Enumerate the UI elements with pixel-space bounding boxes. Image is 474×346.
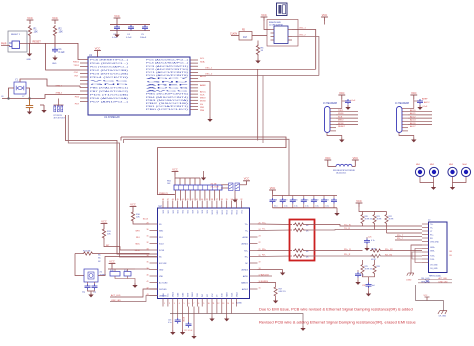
svg-text:SCK: SCK xyxy=(338,116,343,118)
J4 net labels xyxy=(410,98,430,129)
capacitor C5 100uF xyxy=(142,25,148,31)
capacitor C17 xyxy=(186,322,192,328)
svg-text:30: 30 xyxy=(147,229,149,231)
svg-text:PD0 (RXD/PCI...): PD0 (RXD/PCI...) xyxy=(90,63,129,65)
svg-text:23: 23 xyxy=(259,235,261,237)
svg-text:PC1 (ADC1/PCINT9): PC1 (ADC1/PCINT9) xyxy=(146,71,189,74)
svg-text:0.1u: 0.1u xyxy=(168,322,172,324)
wire U2 AGND pin to gnd xyxy=(258,269,283,271)
wire TX-_R out xyxy=(305,229,375,232)
svg-text:PD4 (XCK/T0): PD4 (XCK/T0) xyxy=(90,77,129,79)
svg-text:4.7n: 4.7n xyxy=(371,240,375,242)
U2 bottom pin stubs xyxy=(163,299,237,307)
ground under C1 xyxy=(52,56,57,61)
svg-text:1M: 1M xyxy=(243,35,247,39)
power flag VCC (X2) xyxy=(243,177,250,185)
svg-text:VD18: VD18 xyxy=(182,293,184,297)
ground cap bank xyxy=(114,33,119,38)
svg-text:EXCLRK: EXCLRK xyxy=(159,263,167,265)
node LINK_LED stub xyxy=(110,296,158,302)
resistor R14 1M xyxy=(75,253,82,255)
svg-text:0.1uF: 0.1uF xyxy=(126,37,132,39)
capacitor C11 xyxy=(229,183,234,191)
svg-text:MH3: MH3 xyxy=(449,164,453,166)
svg-text:45: 45 xyxy=(177,199,179,201)
capacitor row C18..C24 xyxy=(270,196,338,208)
wire VCC to U1 xyxy=(97,55,99,58)
svg-text:19: 19 xyxy=(259,261,261,263)
svg-text:ACT_LED: ACT_LED xyxy=(439,277,448,280)
svg-text:AVDD: AVDD xyxy=(243,275,249,278)
svg-text:13: 13 xyxy=(222,303,224,305)
svg-text:SD4: SD4 xyxy=(183,210,185,214)
svg-text:14: 14 xyxy=(227,303,229,305)
svg-text:GND: GND xyxy=(52,63,57,65)
svg-text:7: 7 xyxy=(193,303,194,305)
U1 left net labels xyxy=(55,61,79,105)
svg-text:PB1 (OC1A/PCINT1): PB1 (OC1A/PCINT1) xyxy=(146,105,189,108)
svg-text:MISO: MISO xyxy=(200,98,206,100)
U1 right pin stubs xyxy=(190,60,198,110)
wire osc clock out lower xyxy=(292,37,319,76)
svg-text:VD18: VD18 xyxy=(178,293,180,297)
svg-text:41: 41 xyxy=(196,199,198,201)
wire Y1 right leg xyxy=(26,88,30,99)
svg-text:BANDG: BANDG xyxy=(241,282,248,285)
svg-text:MH1: MH1 xyxy=(416,164,420,166)
wire RX-_R out xyxy=(305,255,375,257)
svg-text:TX+_R: TX+_R xyxy=(344,225,351,227)
svg-text:X2_IN: X2_IN xyxy=(211,183,217,185)
power flag VCC (R10) xyxy=(130,202,137,210)
power flag VCC (osc left) xyxy=(261,13,268,21)
wire RX- to box xyxy=(258,255,293,258)
svg-text:4K7 4K7 4K7: 4K7 4K7 4K7 xyxy=(54,118,65,120)
svg-text:ADC2: ADC2 xyxy=(410,115,416,118)
power flag VCC (R1 top) xyxy=(27,16,34,24)
wire RC to U2 xyxy=(135,268,150,270)
J2 pin names xyxy=(430,224,439,270)
svg-text:CHS_GND: CHS_GND xyxy=(430,241,439,243)
svg-text:34: 34 xyxy=(231,199,233,201)
svg-text:GND1: GND1 xyxy=(173,292,175,297)
svg-text:RX-_T: RX-_T xyxy=(397,238,404,240)
svg-text:R14 1M: R14 1M xyxy=(83,251,91,253)
svg-text:TX-: TX- xyxy=(262,229,266,231)
resistor R26 xyxy=(373,263,376,275)
ground RN1 xyxy=(203,171,205,176)
svg-text:PB6 (XTAL1/TOSC1): PB6 (XTAL1/TOSC1) xyxy=(90,87,129,90)
svg-text:TX-_R: TX-_R xyxy=(344,228,351,230)
svg-text:C20: C20 xyxy=(294,200,297,202)
svg-text:SD11: SD11 xyxy=(217,210,219,214)
svg-text:GND2: GND2 xyxy=(192,292,194,297)
svg-text:CH_GND: CH_GND xyxy=(430,268,438,270)
svg-text:35: 35 xyxy=(226,199,228,201)
svg-text:VCC: VCC xyxy=(90,81,132,83)
svg-text:GND: GND xyxy=(159,270,164,272)
mounting hole MH2 xyxy=(429,167,438,176)
svg-text:SD0: SD0 xyxy=(163,210,165,214)
capacitor C2 tantalum xyxy=(26,99,33,110)
svg-text:GRN-: GRN- xyxy=(430,250,435,252)
svg-text:GRN_LED: GRN_LED xyxy=(421,281,431,283)
svg-text:48: 48 xyxy=(162,199,164,201)
U2 bottom drops xyxy=(173,307,232,335)
resistor R21 49.9R xyxy=(373,213,376,225)
op-amp U2 body DM9000 xyxy=(158,208,250,299)
svg-text:100uF: 100uF xyxy=(140,37,147,39)
svg-text:1: 1 xyxy=(164,303,165,305)
svg-text:LINK_LED: LINK_LED xyxy=(439,281,449,283)
svg-text:C17 4.7uF: C17 4.7uF xyxy=(184,330,193,332)
RC cluster xyxy=(108,259,150,288)
svg-text:AREF: AREF xyxy=(200,84,206,87)
U2 right pin numbers xyxy=(259,222,261,289)
resistor R16 0R xyxy=(293,223,305,226)
svg-text:SD8: SD8 xyxy=(202,210,204,214)
svg-text:RX-: RX- xyxy=(430,238,433,240)
svg-text:AVCC: AVCC xyxy=(424,101,430,104)
power flag VCC (cap row) xyxy=(269,186,276,194)
svg-text:4: 4 xyxy=(179,303,180,305)
U2 right pin names xyxy=(241,224,249,291)
svg-text:C25: C25 xyxy=(368,237,371,239)
svg-text:42: 42 xyxy=(191,199,193,201)
svg-text:0.1uF: 0.1uF xyxy=(351,100,357,102)
resistor R10 xyxy=(131,211,134,223)
svg-text:SD7: SD7 xyxy=(197,210,199,214)
svg-text:INT: INT xyxy=(202,294,204,297)
U2 left pin stubs xyxy=(150,224,158,296)
svg-text:12: 12 xyxy=(217,303,219,305)
svg-text:Due to EMI issue, PCB wire rev: Due to EMI issue, PCB wire revised & Eth… xyxy=(259,306,413,311)
svg-text:33: 33 xyxy=(236,199,238,201)
svg-text:PC3 (ADC3/PCINT11): PC3 (ADC3/PCINT11) xyxy=(146,65,189,68)
mounting hole MH4 xyxy=(461,167,470,176)
svg-text:44: 44 xyxy=(182,199,184,201)
wire term top rail xyxy=(359,207,387,212)
wire VCC to osc xyxy=(264,21,271,30)
svg-text:BGRES: BGRES xyxy=(261,281,269,283)
svg-text:AREF: AREF xyxy=(422,98,428,101)
wire CLKIN to R5 xyxy=(231,35,239,37)
svg-text:YLW-: YLW- xyxy=(430,259,435,261)
wire TX+ to box xyxy=(258,223,293,226)
resistor network RN1 xyxy=(174,185,222,190)
svg-text:TX-: TX- xyxy=(430,227,433,229)
connector J2 HR911105A xyxy=(429,222,448,273)
svg-text:Revised PCB wire & adding Ethe: Revised PCB wire & adding Ethernet Signa… xyxy=(259,320,417,325)
capacitor C15 xyxy=(124,272,131,277)
svg-text:B9: B9 xyxy=(450,255,452,257)
svg-text:40: 40 xyxy=(147,274,149,276)
svg-text:ADC3: ADC3 xyxy=(410,119,416,122)
svg-text:SD3: SD3 xyxy=(178,210,180,214)
oscillator module X3 8MHZ xyxy=(267,20,298,47)
power flag VCC (FB left) xyxy=(324,156,331,164)
wire R5 to osc xyxy=(252,35,267,37)
wire R10 to U2 xyxy=(133,223,150,225)
wire osc to R6 xyxy=(257,41,259,45)
ground RC xyxy=(132,283,137,288)
capacitor C12 xyxy=(235,183,240,191)
svg-text:SD12: SD12 xyxy=(222,210,224,215)
svg-text:MH2: MH2 xyxy=(430,164,434,166)
switch S1 RESET xyxy=(8,31,27,52)
svg-text:ADC0: ADC0 xyxy=(410,109,416,112)
svg-text:CH_GND: CH_GND xyxy=(439,316,447,318)
wire U2 BANDG pin to R27 xyxy=(258,283,276,286)
wire TX- to box xyxy=(258,229,293,232)
svg-text:5: 5 xyxy=(184,303,185,305)
resistor R18 0R xyxy=(293,249,305,252)
svg-text:RX-: RX- xyxy=(245,257,249,259)
ground C26 xyxy=(366,292,371,297)
U1 pin names left column xyxy=(90,60,132,104)
svg-text:10K: 10K xyxy=(136,217,140,219)
svg-text:6: 6 xyxy=(189,303,190,305)
svg-text:U1 ATMEGA8: U1 ATMEGA8 xyxy=(104,116,120,119)
svg-text:GND: GND xyxy=(146,81,192,83)
svg-text:VD25: VD25 xyxy=(231,293,233,297)
svg-text:YLW+: YLW+ xyxy=(430,255,435,257)
svg-text:9: 9 xyxy=(203,303,204,305)
wire U1 gnd stub xyxy=(198,82,210,117)
J3 pin stubs xyxy=(330,109,336,131)
resistor R5 1M (box style) xyxy=(239,30,252,41)
capacitor C1 0.1uF xyxy=(52,47,58,53)
J4 pin stubs xyxy=(402,109,408,131)
capacitor C3 0.1uF xyxy=(114,25,120,31)
svg-text:49.9R: 49.9R xyxy=(377,218,382,220)
power flag VCC (RN1) xyxy=(172,167,179,175)
resistor R6 xyxy=(256,44,259,56)
NC labels xyxy=(98,255,101,263)
svg-text:3: 3 xyxy=(174,303,175,305)
svg-text:AVCC: AVCC xyxy=(146,90,192,93)
svg-text:GND: GND xyxy=(90,84,132,86)
wire osc clock out upper xyxy=(292,30,316,70)
U2 left pin names xyxy=(159,224,168,298)
wire R1 to RESET net xyxy=(29,37,31,43)
svg-text:0.1u: 0.1u xyxy=(315,206,318,208)
svg-text:SDA: SDA xyxy=(200,60,205,63)
svg-text:PD2 (INT0/OC3B): PD2 (INT0/OC3B) xyxy=(90,70,129,72)
svg-text:SD14: SD14 xyxy=(232,210,234,215)
power flag VCC (term) xyxy=(356,199,363,207)
svg-text:J3 HEADER8: J3 HEADER8 xyxy=(323,102,338,105)
svg-text:RX+_R2: RX+_R2 xyxy=(385,249,394,251)
svg-text:CGND: CGND xyxy=(406,280,412,282)
svg-text:SD2: SD2 xyxy=(173,210,175,214)
resistor R22 49.9R xyxy=(385,213,388,225)
svg-text:LINK_LED: LINK_LED xyxy=(111,300,121,302)
svg-text:C22: C22 xyxy=(315,200,318,202)
crystal Y1 xyxy=(14,80,26,95)
svg-text:47: 47 xyxy=(167,199,169,201)
wire VCC right stub xyxy=(324,21,326,25)
svg-text:RESET 1: RESET 1 xyxy=(11,34,21,36)
svg-text:FB1 BLM21PG221SN1D: FB1 BLM21PG221SN1D xyxy=(333,170,356,172)
svg-text:MOSI: MOSI xyxy=(200,101,206,103)
svg-text:RX+_T: RX+_T xyxy=(397,235,404,237)
svg-text:PB0 (ICP1/CLKO): PB0 (ICP1/CLKO) xyxy=(146,109,189,111)
wire RESET to U1 xyxy=(27,43,80,59)
ground drops xyxy=(170,330,175,335)
svg-text:PC5 (ADC5/SCL/PCI...): PC5 (ADC5/SCL/PCI...) xyxy=(146,59,189,62)
crystal X2 group right of RN1 xyxy=(211,177,250,203)
wire RX+_R out xyxy=(305,250,363,252)
svg-text:PB7 (XTAL2/TOSC2): PB7 (XTAL2/TOSC2) xyxy=(90,90,129,93)
svg-text:PD6 (AIN0/OC0A): PD6 (AIN0/OC0A) xyxy=(90,97,129,100)
svg-text:WAKE: WAKE xyxy=(226,291,229,297)
wire TX+_R out xyxy=(305,225,363,227)
svg-text:15: 15 xyxy=(232,303,234,305)
svg-text:TX-: TX- xyxy=(245,231,248,233)
svg-text:RESET: RESET xyxy=(338,126,346,128)
svg-text:IOW: IOW xyxy=(212,293,214,297)
wire Y1 bottom rail xyxy=(2,98,45,100)
svg-text:C23: C23 xyxy=(326,200,329,202)
svg-text:RXD1: RXD1 xyxy=(73,61,80,63)
svg-text:15: 15 xyxy=(259,287,261,289)
svg-text:0.1u: 0.1u xyxy=(361,275,365,277)
resistor R1 10K xyxy=(28,25,31,37)
svg-text:SD15: SD15 xyxy=(237,210,239,215)
J4 net wires xyxy=(408,112,432,125)
svg-text:39: 39 xyxy=(206,199,208,201)
svg-text:0.1u: 0.1u xyxy=(274,206,277,208)
svg-text:CH_GND: CH_GND xyxy=(430,264,438,266)
svg-text:TX+: TX+ xyxy=(430,224,433,226)
wire 1M to crystal xyxy=(75,254,84,276)
wire cap row top rail xyxy=(273,195,338,197)
crystal package Y3 xyxy=(277,3,288,16)
svg-text:6.8K 1%: 6.8K 1% xyxy=(279,291,286,293)
wire R6 to gnd xyxy=(257,56,259,59)
svg-text:ADC7: ADC7 xyxy=(146,77,194,80)
svg-text:RX+: RX+ xyxy=(430,234,434,236)
svg-text:DUPLED: DUPLED xyxy=(159,289,167,291)
svg-text:OSC_1: OSC_1 xyxy=(299,28,306,30)
crystal X1 25MHz xyxy=(84,269,106,282)
svg-text:49.9R: 49.9R xyxy=(371,259,376,261)
node junction dots xyxy=(7,97,9,99)
capacitor C25 4.7n xyxy=(366,237,368,239)
U1 right net labels xyxy=(200,58,213,112)
svg-text:PC0 (ADC0/PCINT8): PC0 (ADC0/PCINT8) xyxy=(146,74,189,77)
svg-text:46: 46 xyxy=(172,199,174,201)
U2 bottom pin names xyxy=(163,291,239,297)
svg-text:49.9R: 49.9R xyxy=(389,218,394,220)
wire bus pair P1 inner xyxy=(68,115,157,257)
U2 left net labels xyxy=(143,219,149,221)
J2 left pin stubs xyxy=(422,224,429,263)
capacitor bank C8 C9 C10 xyxy=(54,99,65,120)
svg-text:TXD1: TXD1 xyxy=(73,65,79,67)
J3 net labels xyxy=(338,110,346,128)
svg-text:C6: C6 xyxy=(1,96,3,98)
U1 left pin stubs xyxy=(80,60,88,102)
svg-text:CLKIN: CLKIN xyxy=(230,33,237,36)
svg-text:SCLK: SCLK xyxy=(159,244,165,246)
svg-text:SD10: SD10 xyxy=(212,210,214,215)
svg-text:PB5 (SCK/PCINT5): PB5 (SCK/PCINT5) xyxy=(146,94,189,96)
resistor R19 0R xyxy=(293,254,305,257)
resistor R17 0R xyxy=(293,228,305,231)
svg-text:VND: VND xyxy=(159,276,164,278)
chassis ground J2 xyxy=(407,245,422,276)
resistor R27 6.8K xyxy=(274,286,277,298)
wire R11 to U2 xyxy=(104,240,150,251)
resistor R20 49.9R xyxy=(361,213,364,225)
capacitor C4 0.1uF xyxy=(128,25,134,31)
svg-text:0.1u: 0.1u xyxy=(284,206,287,208)
wire ETH_GND loop to chassis xyxy=(416,285,444,311)
svg-text:ACT_LED: ACT_LED xyxy=(111,294,121,297)
inductor FB1 xyxy=(328,164,356,167)
wire cap row bottom rail xyxy=(273,207,338,209)
capacitor C26 xyxy=(366,283,372,289)
svg-text:IO16: IO16 xyxy=(222,293,224,297)
svg-text:AREF: AREF xyxy=(146,83,193,86)
svg-text:PC4 (ADC4/SDA/PCI...): PC4 (ADC4/SDA/PCI...) xyxy=(146,62,189,65)
svg-text:10K: 10K xyxy=(107,234,111,236)
U2 left net labels rows xyxy=(135,230,141,252)
wire MH3/MH4 to gnd xyxy=(453,177,467,183)
svg-text:43: 43 xyxy=(187,199,189,201)
svg-text:37: 37 xyxy=(216,199,218,201)
power flag VCC (J3) xyxy=(338,91,345,99)
svg-text:PB3 (MOSI/OC2A): PB3 (MOSI/OC2A) xyxy=(146,99,189,102)
node YEL_LED wire xyxy=(418,279,452,281)
wire Y1 rail to U1 XTAL2 xyxy=(45,95,80,99)
node ACT_LED stub xyxy=(110,289,158,297)
resistor R15 xyxy=(110,272,120,277)
svg-text:1A 220ohm: 1A 220ohm xyxy=(336,172,346,175)
power flag VCC (J4) xyxy=(410,91,417,99)
svg-text:41: 41 xyxy=(147,281,149,283)
svg-text:AGND2: AGND2 xyxy=(241,243,248,246)
power flag VCC (R11) xyxy=(101,219,108,227)
wire bus pair P2 inner xyxy=(124,139,290,195)
mounting hole MH1 xyxy=(415,167,424,176)
svg-text:32: 32 xyxy=(240,199,242,201)
U2 left pin numbers xyxy=(147,222,149,296)
U2 top pin numbers xyxy=(162,199,242,201)
wire bus pair P1 outer (U1 area down to U2 left) xyxy=(66,115,158,254)
svg-text:11: 11 xyxy=(213,303,215,305)
svg-text:TEST: TEST xyxy=(187,293,189,297)
svg-text:YEL_LED: YEL_LED xyxy=(421,278,430,280)
wire Y1 top route to U1 XTAL1 xyxy=(20,79,80,86)
svg-text:C18: C18 xyxy=(274,200,277,202)
svg-text:AVDD2: AVDD2 xyxy=(242,288,248,291)
ground cap row xyxy=(336,208,338,211)
resistor R11 xyxy=(102,228,105,240)
svg-text:PC2 (ADC2/PCINT10): PC2 (ADC2/PCINT10) xyxy=(146,68,189,71)
svg-text:10K: 10K xyxy=(34,31,39,34)
ground U1 right xyxy=(207,117,212,122)
U2 top pin stubs xyxy=(163,201,241,209)
wire R20 bottom to TX+ net xyxy=(362,225,364,226)
svg-text:0.1u: 0.1u xyxy=(124,270,128,272)
svg-text:PD1 (TXD/OC3A/PCI...): PD1 (TXD/OC3A/PCI...) xyxy=(90,66,129,69)
svg-text:AGND: AGND xyxy=(243,236,249,239)
ground X2 xyxy=(234,191,236,198)
U1 pin names right column xyxy=(146,59,194,112)
